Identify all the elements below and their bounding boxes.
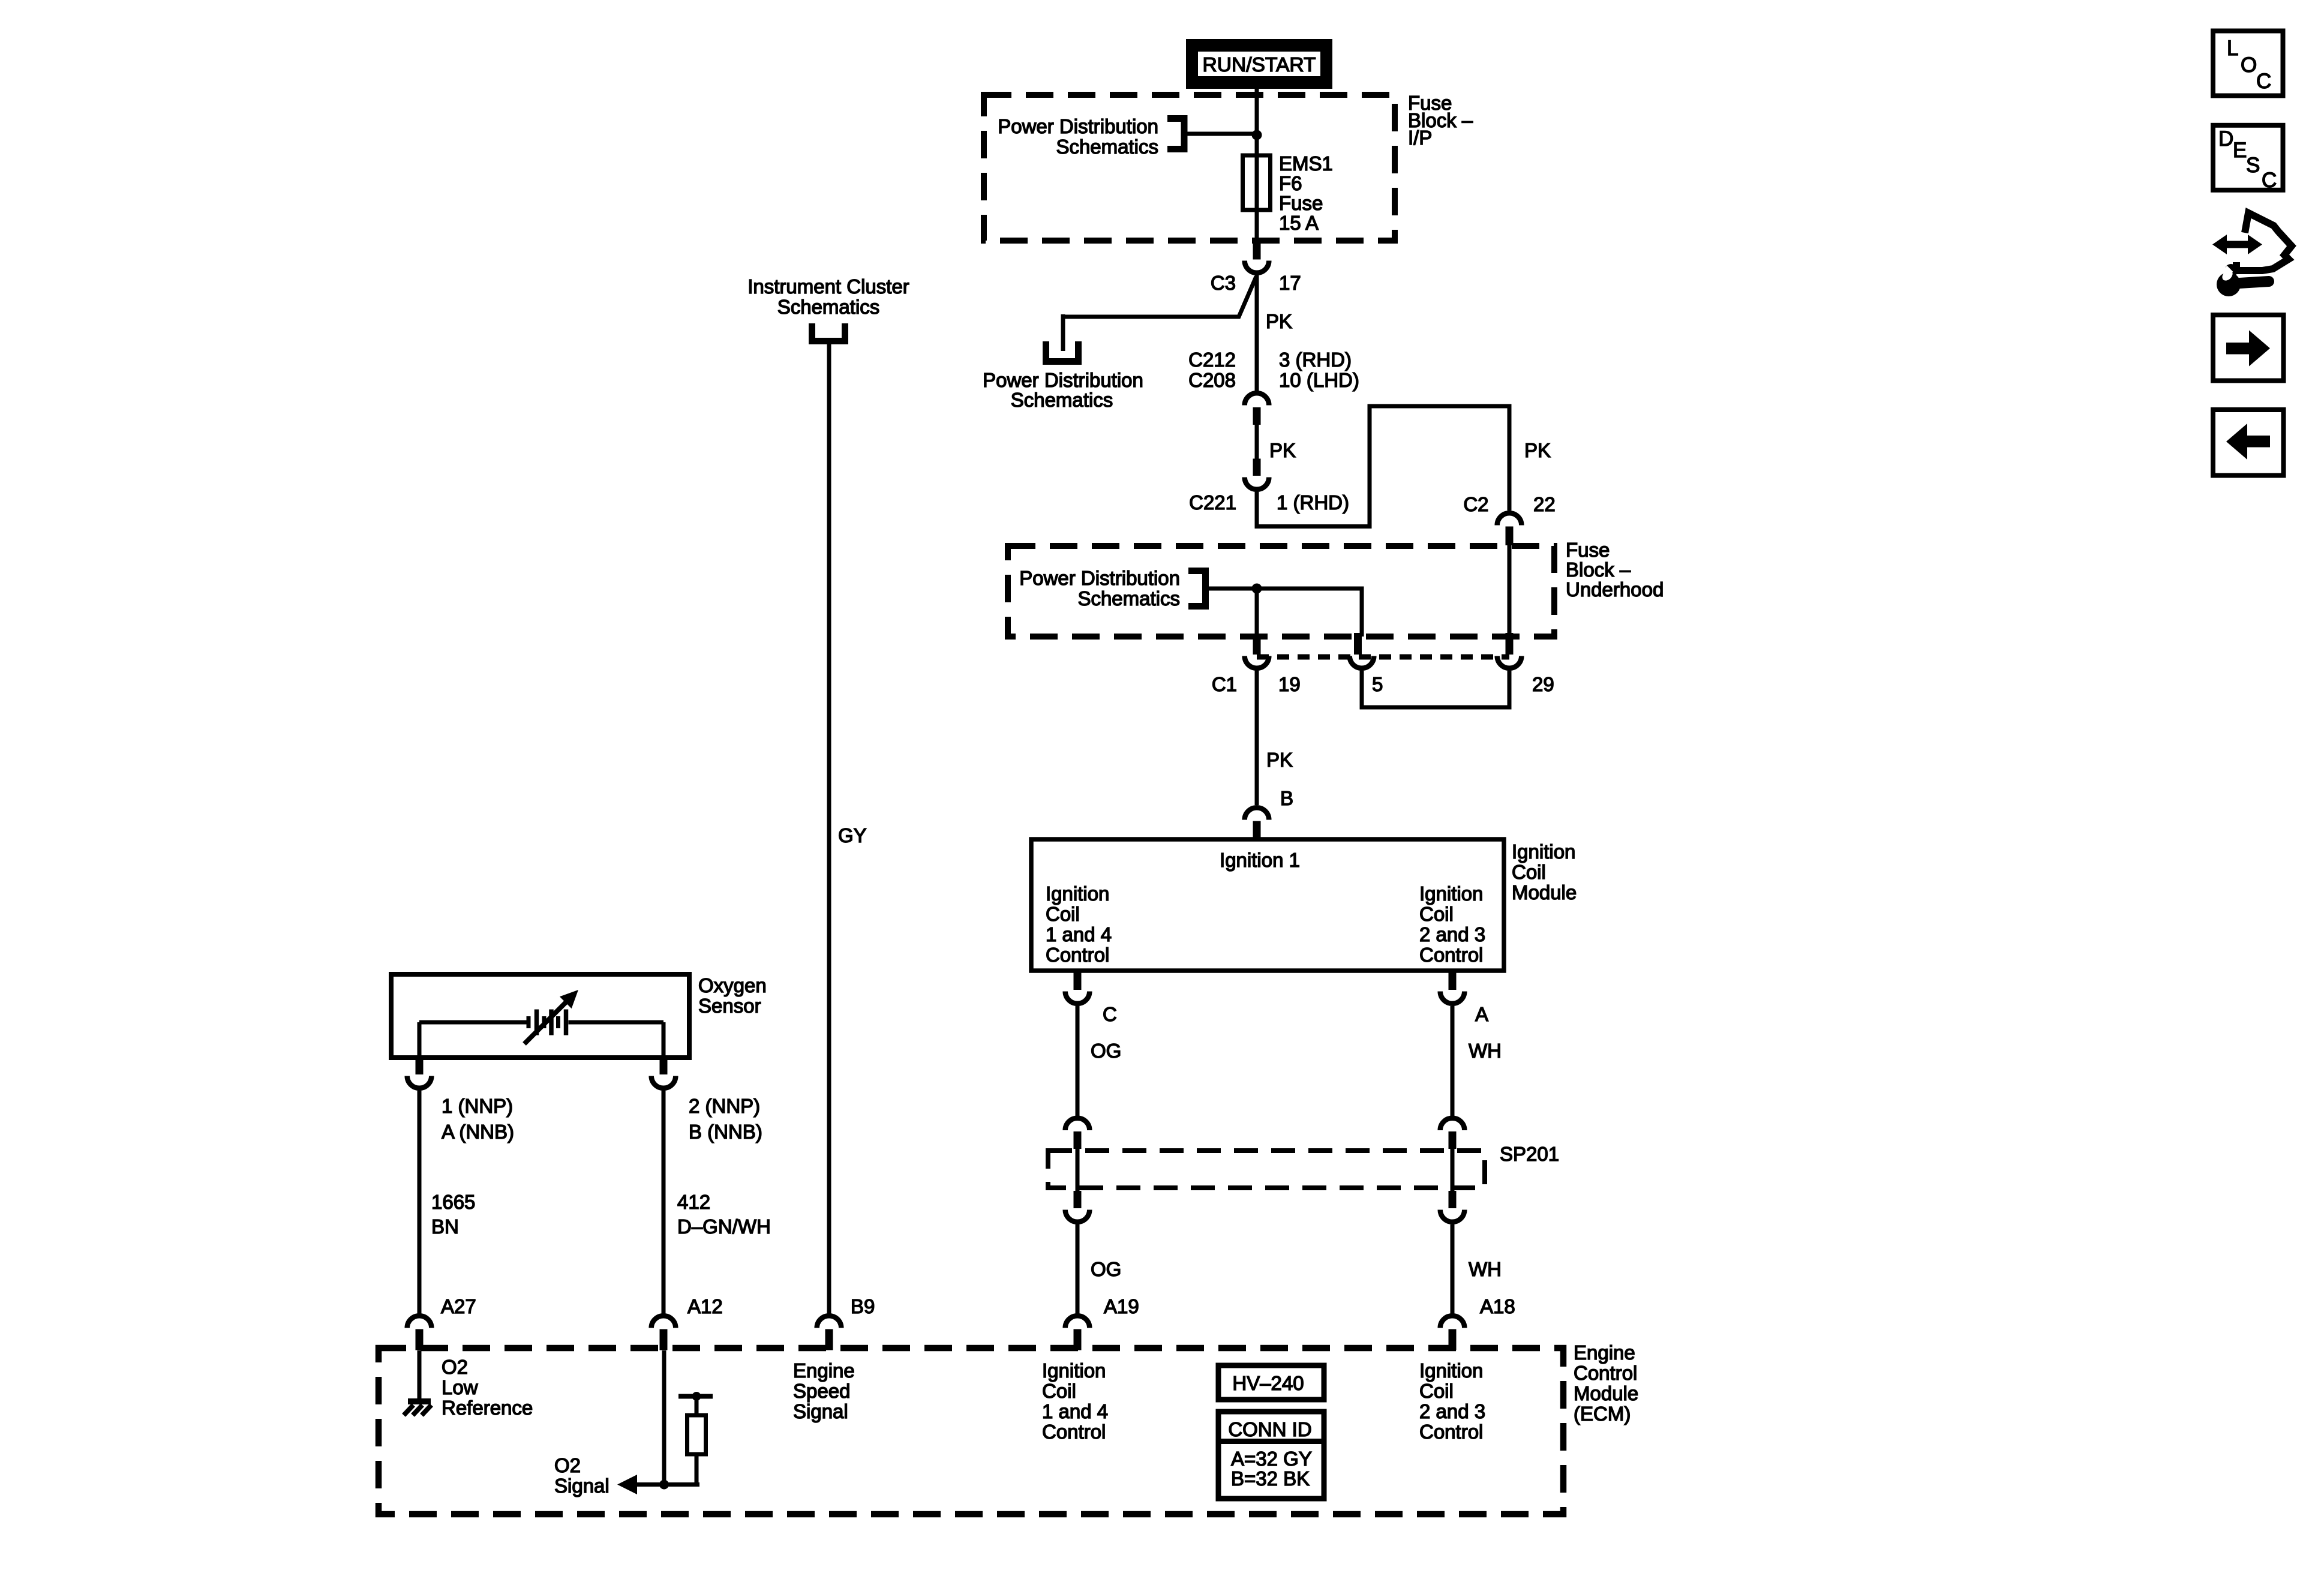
svg-text:Low: Low [442, 1376, 478, 1398]
svg-text:A19: A19 [1104, 1295, 1139, 1317]
svg-text:Coil: Coil [1419, 1380, 1454, 1402]
svg-text:Coil: Coil [1042, 1380, 1076, 1402]
svg-text:F6: F6 [1279, 172, 1302, 194]
svg-text:PK: PK [1266, 310, 1292, 332]
svg-text:B: B [1280, 787, 1293, 809]
svg-text:Power Distribution: Power Distribution [983, 369, 1143, 391]
svg-text:OG: OG [1091, 1040, 1121, 1062]
svg-text:22: 22 [1533, 493, 1556, 515]
svg-text:Schematics: Schematics [1056, 136, 1158, 158]
svg-text:O2: O2 [554, 1454, 581, 1476]
svg-text:Coil: Coil [1512, 861, 1546, 883]
svg-text:3 (RHD): 3 (RHD) [1279, 349, 1352, 371]
svg-text:Ignition: Ignition [1419, 882, 1483, 905]
svg-text:D: D [2218, 127, 2233, 151]
svg-text:Reference: Reference [442, 1397, 533, 1419]
svg-text:Module: Module [1574, 1382, 1638, 1404]
svg-text:A27: A27 [441, 1295, 476, 1317]
svg-text:PK: PK [1524, 439, 1551, 461]
svg-text:Underhood: Underhood [1566, 578, 1664, 601]
svg-text:1 and 4: 1 and 4 [1046, 923, 1112, 945]
svg-text:Schematics: Schematics [1011, 389, 1113, 411]
svg-text:C212: C212 [1188, 349, 1236, 371]
svg-text:Signal: Signal [554, 1475, 609, 1497]
svg-text:C: C [2256, 70, 2271, 93]
svg-text:C1: C1 [1212, 673, 1237, 695]
svg-text:C2: C2 [1463, 493, 1488, 515]
svg-text:Speed: Speed [793, 1380, 850, 1402]
svg-text:BN: BN [431, 1215, 459, 1238]
svg-text:Coil: Coil [1419, 903, 1454, 925]
svg-text:WH: WH [1469, 1040, 1502, 1062]
svg-text:29: 29 [1532, 673, 1554, 695]
svg-text:Ignition: Ignition [1419, 1359, 1483, 1382]
svg-text:C: C [2262, 169, 2277, 192]
svg-text:Power Distribution: Power Distribution [998, 115, 1158, 137]
svg-text:Control: Control [1574, 1362, 1637, 1384]
svg-text:D–GN/WH: D–GN/WH [677, 1215, 771, 1238]
svg-text:Sensor: Sensor [698, 995, 761, 1017]
svg-text:Ignition: Ignition [1046, 882, 1109, 905]
svg-text:GY: GY [838, 824, 867, 846]
svg-text:1665: 1665 [431, 1191, 475, 1213]
svg-text:O: O [2241, 53, 2257, 77]
svg-text:A: A [1475, 1003, 1488, 1025]
svg-text:O2: O2 [442, 1356, 468, 1378]
svg-text:RUN/START: RUN/START [1203, 53, 1316, 76]
svg-text:PK: PK [1266, 749, 1293, 771]
svg-text:15 A: 15 A [1279, 212, 1319, 234]
svg-text:C208: C208 [1188, 369, 1236, 391]
svg-text:Fuse: Fuse [1566, 539, 1610, 561]
svg-text:5: 5 [1372, 673, 1383, 695]
svg-text:Schematics: Schematics [1077, 587, 1180, 610]
svg-text:HV–240: HV–240 [1232, 1372, 1304, 1394]
svg-text:PK: PK [1269, 439, 1296, 461]
svg-text:A12: A12 [687, 1295, 723, 1317]
svg-text:19: 19 [1278, 673, 1301, 695]
svg-text:CONN ID: CONN ID [1228, 1418, 1311, 1440]
svg-text:Coil: Coil [1046, 903, 1080, 925]
svg-text:Engine: Engine [793, 1359, 855, 1382]
svg-text:B=32 BK: B=32 BK [1231, 1467, 1310, 1490]
svg-text:Engine: Engine [1574, 1341, 1635, 1364]
svg-text:2 and 3: 2 and 3 [1419, 923, 1485, 945]
svg-text:1 (RHD): 1 (RHD) [1277, 491, 1349, 514]
svg-text:Module: Module [1512, 881, 1577, 903]
svg-text:Control: Control [1419, 944, 1483, 966]
svg-text:Schematics: Schematics [777, 296, 880, 318]
svg-text:Control: Control [1046, 944, 1109, 966]
svg-text:C: C [1103, 1003, 1117, 1025]
svg-text:Signal: Signal [793, 1400, 848, 1422]
svg-text:1 (NNP): 1 (NNP) [442, 1095, 513, 1117]
svg-text:Control: Control [1419, 1421, 1483, 1443]
svg-text:Ignition: Ignition [1512, 840, 1575, 863]
svg-text:10 (LHD): 10 (LHD) [1279, 369, 1359, 391]
svg-text:A=32 GY: A=32 GY [1231, 1448, 1312, 1470]
svg-text:A18: A18 [1480, 1295, 1515, 1317]
svg-text:OG: OG [1091, 1258, 1121, 1280]
svg-text:SP201: SP201 [1500, 1143, 1559, 1165]
svg-text:Ignition: Ignition [1042, 1359, 1106, 1382]
svg-text:Power Distribution: Power Distribution [1019, 567, 1180, 589]
svg-text:Ignition 1: Ignition 1 [1220, 849, 1300, 871]
svg-text:C3: C3 [1211, 272, 1236, 294]
svg-text:EMS1: EMS1 [1279, 152, 1333, 175]
svg-text:Block –: Block – [1566, 559, 1631, 581]
svg-text:I/P: I/P [1408, 127, 1432, 149]
svg-text:1 and 4: 1 and 4 [1042, 1400, 1108, 1422]
svg-text:Control: Control [1042, 1421, 1106, 1443]
svg-text:(ECM): (ECM) [1574, 1403, 1631, 1425]
svg-text:B9: B9 [851, 1295, 875, 1317]
svg-text:Oxygen: Oxygen [698, 974, 767, 996]
svg-text:L: L [2227, 37, 2238, 60]
svg-text:2 and 3: 2 and 3 [1419, 1400, 1485, 1422]
svg-text:Instrument Cluster: Instrument Cluster [747, 275, 909, 298]
svg-text:B (NNB): B (NNB) [689, 1121, 762, 1143]
svg-text:WH: WH [1469, 1258, 1502, 1280]
svg-text:C221: C221 [1189, 491, 1236, 514]
svg-text:17: 17 [1279, 272, 1301, 294]
svg-text:Fuse: Fuse [1279, 192, 1323, 214]
svg-text:A (NNB): A (NNB) [442, 1121, 514, 1143]
svg-text:E: E [2233, 139, 2247, 162]
svg-text:S: S [2246, 154, 2260, 177]
svg-text:412: 412 [677, 1191, 710, 1213]
svg-text:2 (NNP): 2 (NNP) [689, 1095, 760, 1117]
